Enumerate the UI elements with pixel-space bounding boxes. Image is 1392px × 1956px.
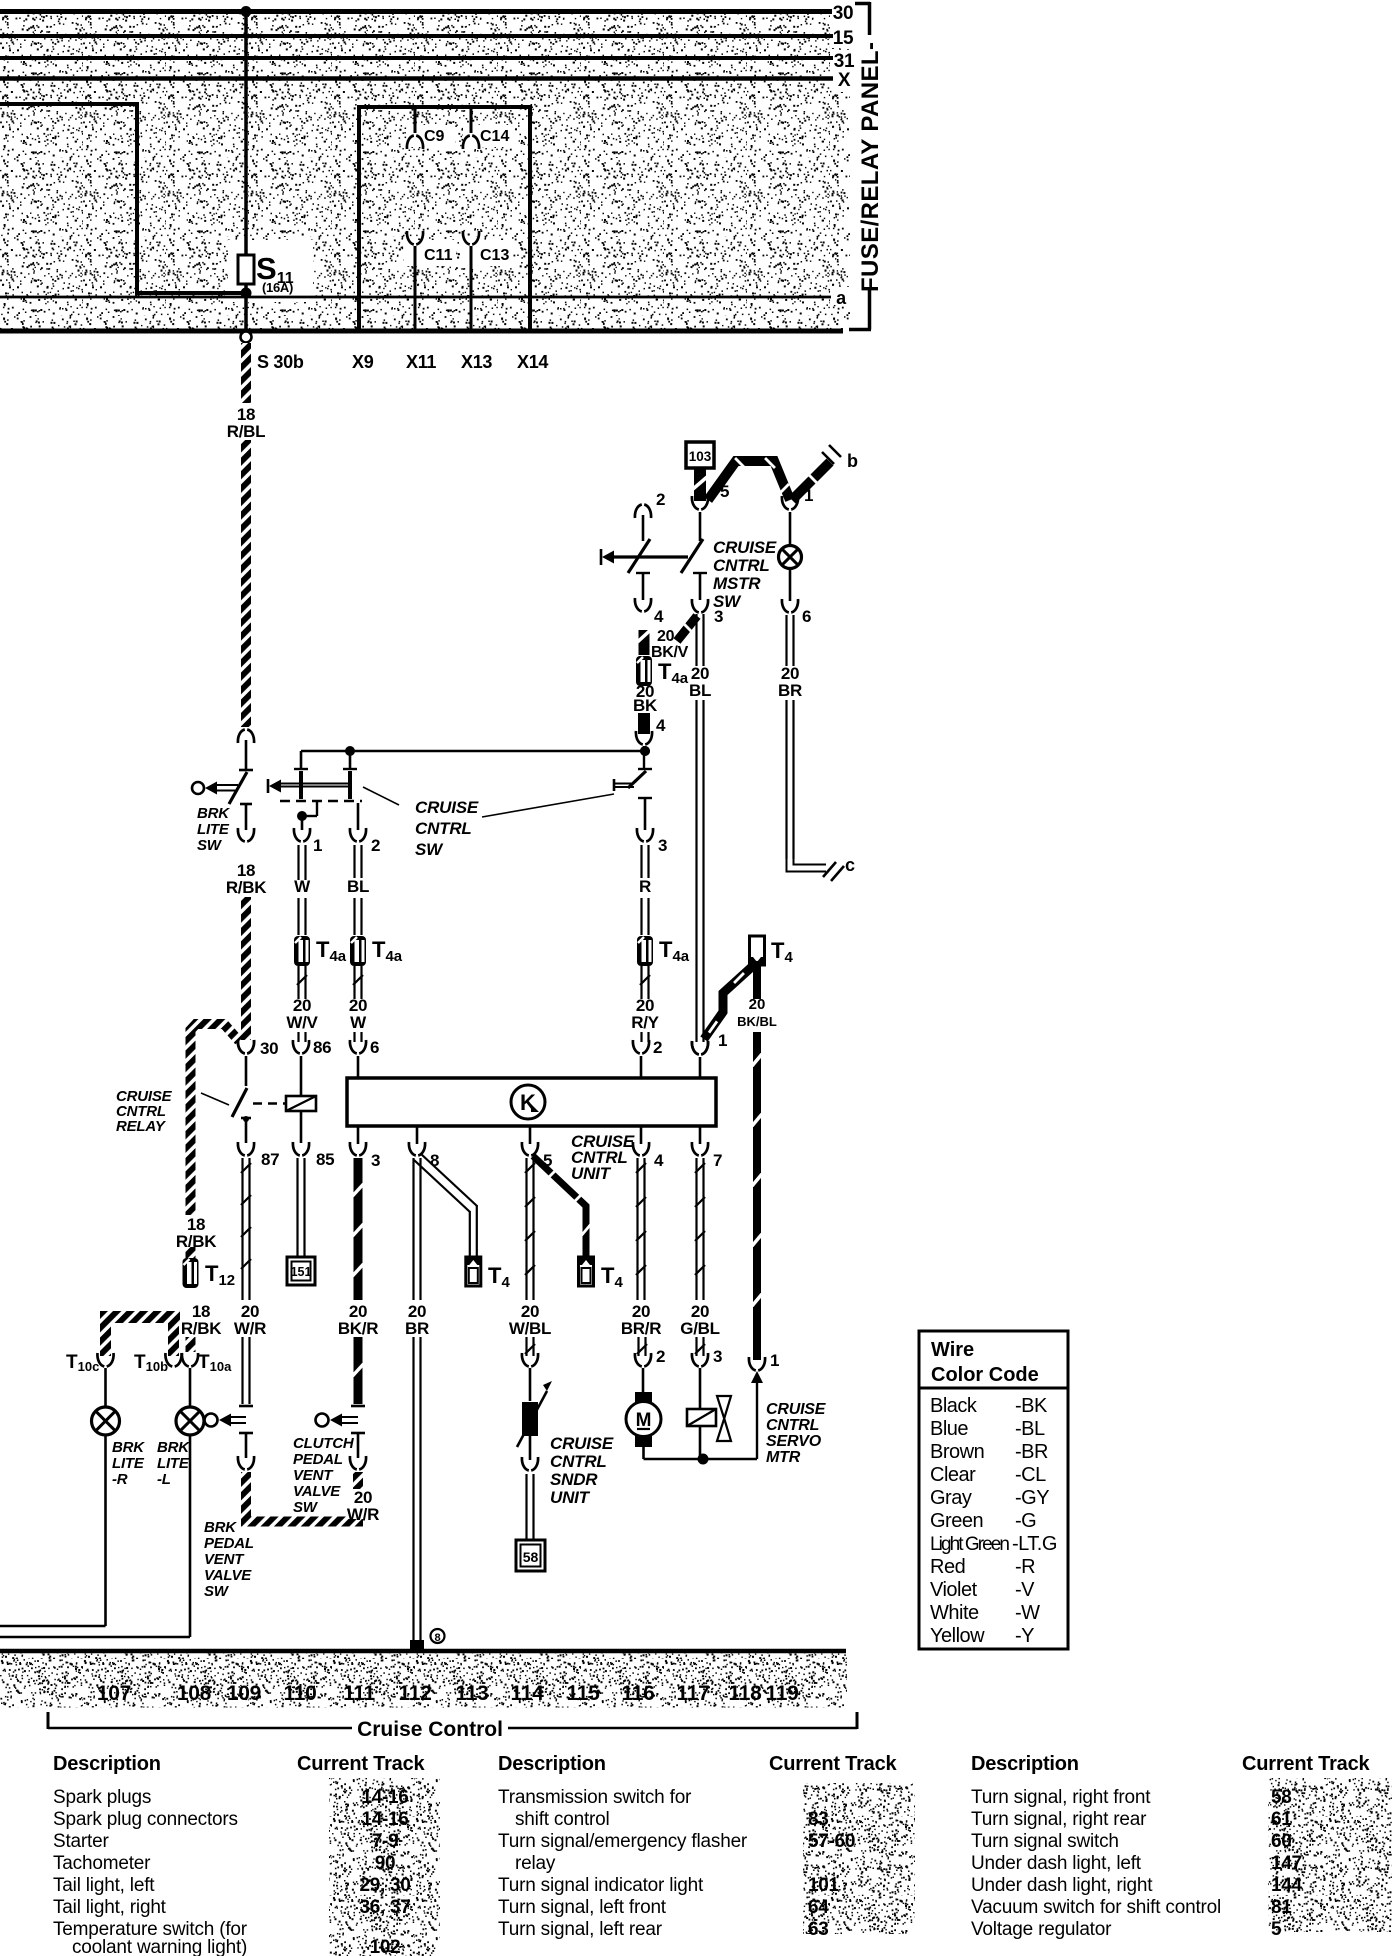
svg-text:14-16: 14-16	[361, 1787, 408, 1808]
svg-text:-R: -R	[1015, 1556, 1035, 1578]
svg-text:X: X	[838, 70, 851, 91]
svg-text:Current Track: Current Track	[769, 1753, 898, 1775]
svg-text:LITE: LITE	[157, 1455, 190, 1472]
svg-text:Transmission switch for: Transmission switch for	[498, 1787, 692, 1808]
svg-text:5: 5	[1271, 1919, 1282, 1940]
svg-text:108: 108	[177, 1682, 212, 1705]
svg-text:-BK: -BK	[1015, 1395, 1048, 1417]
svg-text:CRUISE: CRUISE	[550, 1434, 614, 1453]
svg-text:-LT.G: -LT.G	[1012, 1533, 1057, 1555]
svg-text:151: 151	[291, 1265, 312, 1279]
svg-text:BL: BL	[347, 877, 369, 896]
svg-text:Turn signal switch: Turn signal switch	[971, 1831, 1119, 1852]
svg-text:X9: X9	[352, 352, 374, 372]
svg-text:2: 2	[656, 490, 665, 509]
svg-text:119: 119	[766, 1682, 799, 1705]
svg-text:57-60: 57-60	[808, 1831, 855, 1852]
svg-text:144: 144	[1271, 1875, 1303, 1896]
svg-text:8: 8	[434, 1632, 440, 1644]
svg-text:-V: -V	[1015, 1579, 1035, 1601]
svg-text:White: White	[930, 1602, 979, 1624]
svg-text:36, 37: 36, 37	[359, 1897, 410, 1918]
svg-text:Yellow: Yellow	[930, 1625, 985, 1647]
svg-text:-G: -G	[1015, 1510, 1036, 1532]
svg-text:2: 2	[656, 1347, 665, 1366]
svg-text:60: 60	[1271, 1831, 1292, 1852]
svg-text:Description: Description	[53, 1753, 161, 1775]
svg-text:58: 58	[523, 1549, 539, 1565]
svg-text:Green: Green	[930, 1510, 983, 1532]
svg-text:101: 101	[808, 1875, 840, 1896]
svg-text:M: M	[636, 1410, 652, 1431]
svg-text:116: 116	[622, 1682, 655, 1705]
svg-text:SW: SW	[713, 592, 742, 611]
svg-text:BL: BL	[689, 681, 711, 700]
svg-text:4: 4	[654, 607, 664, 626]
svg-text:Tail light, left: Tail light, left	[53, 1875, 155, 1896]
svg-text:Current Track: Current Track	[297, 1753, 426, 1775]
svg-text:SW: SW	[197, 837, 223, 854]
svg-text:1: 1	[718, 1031, 727, 1050]
svg-text:86: 86	[313, 1038, 331, 1057]
svg-text:X11: X11	[406, 352, 436, 372]
svg-text:90: 90	[375, 1853, 396, 1874]
svg-text:6: 6	[802, 607, 811, 626]
svg-text:Turn signal/emergency flasher: Turn signal/emergency flasher	[498, 1831, 748, 1852]
svg-text:7: 7	[713, 1151, 722, 1170]
svg-text:c: c	[845, 855, 855, 875]
svg-text:111: 111	[343, 1682, 375, 1705]
svg-text:-L: -L	[157, 1471, 171, 1488]
svg-text:114: 114	[511, 1682, 545, 1705]
svg-text:Color Code: Color Code	[931, 1364, 1039, 1386]
svg-text:113: 113	[456, 1682, 489, 1705]
svg-text:BRK: BRK	[197, 805, 230, 822]
svg-text:R: R	[639, 877, 651, 896]
svg-text:112: 112	[399, 1682, 432, 1705]
svg-text:RELAY: RELAY	[116, 1118, 167, 1135]
svg-text:SW: SW	[293, 1499, 319, 1516]
svg-text:Turn signal, left front: Turn signal, left front	[498, 1897, 667, 1918]
svg-text:15: 15	[833, 28, 854, 49]
svg-text:b: b	[847, 451, 858, 471]
svg-text:Spark plug connectors: Spark plug connectors	[53, 1809, 238, 1830]
svg-text:Brown: Brown	[930, 1441, 984, 1463]
svg-text:CNTRL: CNTRL	[713, 556, 770, 575]
svg-text:Tail light, right: Tail light, right	[53, 1897, 167, 1918]
svg-text:6: 6	[370, 1038, 379, 1057]
svg-text:-BR: -BR	[1015, 1441, 1048, 1463]
svg-text:-Y: -Y	[1015, 1625, 1034, 1647]
svg-text:CRUISE: CRUISE	[766, 1401, 827, 1418]
svg-text:C14: C14	[480, 128, 509, 145]
svg-text:CRUISE: CRUISE	[415, 798, 479, 817]
svg-text:R/BK: R/BK	[226, 878, 267, 897]
svg-text:CRUISE: CRUISE	[713, 538, 777, 557]
svg-text:BK/R: BK/R	[338, 1319, 378, 1338]
svg-text:110: 110	[284, 1682, 317, 1705]
svg-text:3: 3	[713, 1347, 722, 1366]
svg-text:115: 115	[567, 1682, 601, 1705]
svg-text:BR/R: BR/R	[621, 1319, 661, 1338]
svg-text:Light Green: Light Green	[930, 1534, 1010, 1555]
svg-text:Under dash light, left: Under dash light, left	[971, 1853, 1142, 1874]
svg-text:103: 103	[689, 449, 712, 464]
svg-text:29, 30: 29, 30	[359, 1875, 410, 1896]
svg-text:7-9: 7-9	[372, 1831, 399, 1852]
svg-text:64: 64	[808, 1897, 829, 1918]
svg-text:VALVE: VALVE	[293, 1483, 341, 1500]
svg-text:Under dash light, right: Under dash light, right	[971, 1875, 1153, 1896]
svg-text:Clear: Clear	[930, 1464, 976, 1486]
svg-text:SERVO: SERVO	[766, 1433, 822, 1450]
svg-text:2: 2	[653, 1038, 662, 1057]
svg-text:G/BL: G/BL	[680, 1319, 719, 1338]
svg-text:X13: X13	[461, 352, 492, 372]
svg-text:MTR: MTR	[766, 1449, 801, 1466]
svg-text:R/BK: R/BK	[181, 1319, 222, 1338]
svg-text:MSTR: MSTR	[713, 574, 761, 593]
svg-text:FUSE/RELAY PANEL-: FUSE/RELAY PANEL-	[857, 42, 884, 292]
svg-text:C9: C9	[424, 128, 445, 145]
svg-text:58: 58	[1271, 1787, 1292, 1808]
svg-text:Current Track: Current Track	[1242, 1753, 1371, 1775]
svg-text:87: 87	[261, 1150, 279, 1169]
svg-text:UNIT: UNIT	[571, 1164, 612, 1183]
svg-text:a: a	[836, 288, 847, 308]
svg-text:Turn signal, right front: Turn signal, right front	[971, 1787, 1151, 1808]
svg-text:-R: -R	[112, 1471, 128, 1488]
svg-text:W: W	[294, 877, 311, 896]
svg-text:-CL: -CL	[1015, 1464, 1046, 1486]
svg-text:R/BL: R/BL	[227, 422, 265, 441]
svg-text:LITE: LITE	[197, 821, 230, 838]
svg-text:Blue: Blue	[930, 1418, 968, 1440]
svg-text:W/BL: W/BL	[509, 1319, 551, 1338]
svg-text:Spark plugs: Spark plugs	[53, 1787, 151, 1808]
svg-text:83: 83	[808, 1809, 829, 1830]
svg-text:SW: SW	[204, 1583, 230, 1600]
svg-text:Violet: Violet	[930, 1579, 978, 1601]
svg-text:R/BK: R/BK	[176, 1232, 217, 1251]
svg-text:1: 1	[313, 836, 322, 855]
svg-text:Starter: Starter	[53, 1831, 109, 1852]
svg-text:Red: Red	[930, 1556, 965, 1578]
svg-text:SW: SW	[415, 840, 444, 859]
svg-text:85: 85	[316, 1150, 334, 1169]
svg-text:Description: Description	[971, 1753, 1079, 1775]
svg-text:4: 4	[654, 1151, 664, 1170]
svg-text:BK: BK	[633, 696, 658, 715]
svg-text:Turn signal, right rear: Turn signal, right rear	[971, 1809, 1147, 1830]
svg-text:VENT: VENT	[204, 1551, 245, 1568]
svg-text:Tachometer: Tachometer	[53, 1853, 151, 1874]
svg-text:-W: -W	[1015, 1602, 1040, 1624]
svg-text:LITE: LITE	[112, 1455, 145, 1472]
svg-text:3: 3	[658, 836, 667, 855]
svg-text:Turn signal indicator light: Turn signal indicator light	[498, 1875, 704, 1896]
svg-text:147: 147	[1271, 1853, 1302, 1874]
svg-text:Black: Black	[930, 1395, 978, 1417]
svg-text:C11: C11	[424, 247, 453, 264]
svg-text:VALVE: VALVE	[204, 1567, 252, 1584]
svg-text:W/R: W/R	[347, 1505, 379, 1524]
svg-text:relay: relay	[515, 1853, 556, 1874]
svg-text:CNTRL: CNTRL	[550, 1452, 607, 1471]
svg-text:PEDAL: PEDAL	[293, 1451, 343, 1468]
svg-text:(16A): (16A)	[262, 280, 293, 295]
svg-text:R/Y: R/Y	[631, 1013, 659, 1032]
svg-text:2: 2	[371, 836, 380, 855]
svg-text:117: 117	[677, 1682, 710, 1705]
svg-text:14-16: 14-16	[361, 1809, 408, 1830]
svg-text:UNIT: UNIT	[550, 1488, 591, 1507]
svg-text:30: 30	[260, 1039, 278, 1058]
svg-text:3: 3	[371, 1151, 380, 1170]
svg-text:BRK: BRK	[204, 1519, 237, 1536]
svg-text:63: 63	[808, 1919, 829, 1940]
svg-text:20: 20	[657, 628, 675, 645]
svg-text:CNTRL: CNTRL	[415, 819, 472, 838]
svg-text:CNTRL: CNTRL	[766, 1417, 819, 1434]
svg-text:30: 30	[833, 3, 854, 24]
svg-text:C13: C13	[480, 247, 509, 264]
svg-text:CLUTCH: CLUTCH	[293, 1435, 355, 1452]
svg-text:Voltage regulator: Voltage regulator	[971, 1919, 1112, 1940]
svg-text:shift control: shift control	[515, 1809, 610, 1830]
svg-text:PEDAL: PEDAL	[204, 1535, 254, 1552]
svg-text:118: 118	[729, 1682, 763, 1705]
svg-text:W: W	[350, 1013, 367, 1032]
svg-text:X14: X14	[517, 352, 548, 372]
svg-text:BR: BR	[405, 1319, 429, 1338]
svg-text:4: 4	[656, 716, 666, 735]
svg-text:Turn signal, left rear: Turn signal, left rear	[498, 1919, 663, 1940]
svg-text:BR: BR	[778, 681, 802, 700]
svg-text:109: 109	[227, 1682, 261, 1705]
svg-text:Cruise Control: Cruise Control	[357, 1718, 503, 1741]
svg-text:107: 107	[97, 1682, 131, 1705]
svg-text:-BL: -BL	[1015, 1418, 1045, 1440]
svg-text:S 30b: S 30b	[257, 352, 304, 372]
svg-text:Vacuum switch for shift contro: Vacuum switch for shift control	[971, 1897, 1221, 1918]
svg-text:SNDR: SNDR	[550, 1470, 598, 1489]
svg-text:1: 1	[770, 1351, 779, 1370]
svg-text:BRK: BRK	[112, 1439, 145, 1456]
svg-text:BRK: BRK	[157, 1439, 190, 1456]
svg-text:Gray: Gray	[930, 1487, 972, 1509]
svg-text:102: 102	[370, 1937, 401, 1956]
svg-text:VENT: VENT	[293, 1467, 334, 1484]
svg-text:BK/V: BK/V	[651, 644, 689, 661]
svg-text:31: 31	[834, 51, 855, 72]
svg-text:Wire: Wire	[931, 1339, 974, 1361]
svg-text:Description: Description	[498, 1753, 606, 1775]
svg-text:61: 61	[1271, 1809, 1292, 1830]
svg-text:BK/BL: BK/BL	[737, 1014, 777, 1029]
svg-text:W/V: W/V	[286, 1013, 318, 1032]
svg-text:81: 81	[1271, 1897, 1292, 1918]
svg-text:W/R: W/R	[234, 1319, 266, 1338]
svg-text:-GY: -GY	[1015, 1487, 1049, 1509]
svg-text:coolant warning light): coolant warning light)	[72, 1937, 247, 1956]
